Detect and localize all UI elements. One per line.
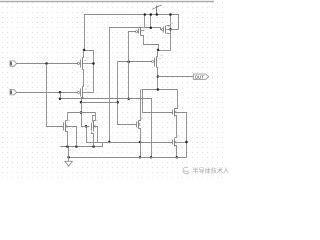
- transistor B nmos mirror diode: [92, 120, 99, 132]
- node out: [157, 75, 160, 78]
- wire M1 bulk: [83, 63, 94, 65]
- wire bias bus y=27.7 with left riser: [110, 28, 151, 143]
- wire B1 drop to C gate: [118, 62, 137, 125]
- wire INN drop: [60, 93, 62, 99]
- transistor M5 pmos mirror right: [162, 23, 173, 33]
- wire A drain lead: [66, 113, 68, 121]
- wire M6 gate bus: [118, 61, 153, 63]
- wire INP drop to A gate: [47, 64, 64, 127]
- wire Mn2 source: [175, 146, 177, 158]
- node B1 on y=102.3: [116, 101, 119, 104]
- node M1 source: [83, 49, 86, 52]
- node M1 bulk: [92, 62, 95, 65]
- wire W1 bias horizontal with tail: [61, 99, 152, 158]
- node Mn2 bulk on riser: [185, 141, 188, 144]
- wire M1 bulk jog riser: [85, 51, 94, 93]
- wire M5 gate from rail: [151, 15, 162, 30]
- wire M2 drain jog: [83, 97, 84, 99]
- wire C source riser: [139, 129, 141, 158]
- port INP: [10, 61, 17, 66]
- node A source: [66, 145, 69, 148]
- port INN: [10, 90, 17, 95]
- wire x=81 drop to B gate: [82, 103, 90, 127]
- node C source on mirror rail: [139, 141, 142, 144]
- vdd supply symbol: [156, 6, 158, 15]
- node C source on ground: [139, 156, 142, 159]
- node B2 on W1: [127, 97, 130, 100]
- node W1 left: [59, 97, 62, 100]
- transistor C nmos mirror out: [137, 118, 144, 129]
- transistor Mn2 nmos output: [173, 136, 180, 147]
- wire M1 source lead: [83, 51, 84, 58]
- wire ground stub: [68, 147, 70, 162]
- wire Mn1 drain riser: [175, 90, 178, 109]
- transistor M1 pmos input cascode: [78, 57, 89, 69]
- wire y=102.3: [82, 102, 118, 104]
- wire M7 bulk: [141, 30, 145, 32]
- wire Mn2 bulk: [176, 142, 187, 144]
- wire B bulk: [95, 127, 98, 143]
- wire M6 source node y=50: [159, 50, 171, 52]
- wire B2 drop from M7 gate: [129, 32, 137, 99]
- wire ground rail: [69, 157, 187, 159]
- wire M2 bulk: [83, 92, 94, 94]
- wire M5 bulk to rail end: [167, 29, 179, 31]
- wire A bulk: [67, 127, 77, 147]
- node M6 gate B2 junction: [127, 61, 130, 64]
- wire out level y=89.5: [142, 89, 178, 91]
- wire M7 drain to M6 source node: [141, 36, 159, 51]
- wire y=112.5 A drain to B drain: [68, 112, 96, 114]
- node M5 gate riser on rail: [150, 13, 153, 16]
- transistor A nmos mirror left: [64, 120, 70, 132]
- wire M1 drain to M2 source: [83, 70, 84, 87]
- transistor M6 pmos second stage: [152, 55, 163, 67]
- node A bulk: [75, 145, 78, 148]
- node M6 source: [157, 49, 160, 52]
- wire mirror rail / Mn2 gate bus y=142: [87, 127, 173, 143]
- svg-text:OUT: OUT: [195, 74, 204, 79]
- wire Mn1 source to Mn2 drain: [175, 116, 177, 138]
- wire M5 drain jog: [167, 33, 171, 35]
- wire Mn1 gate from out level: [143, 90, 173, 113]
- node ground stub: [67, 156, 70, 159]
- wire B drain lead: [94, 113, 96, 121]
- node B gate tap: [85, 125, 88, 128]
- wire M6 drain to out node: [157, 68, 158, 90]
- wire B source lead: [92, 132, 94, 147]
- transistor Mn1 nmos output cascode: [173, 106, 180, 117]
- node INP net: [45, 62, 48, 65]
- transistor M2 pmos input: [78, 86, 89, 99]
- node W1 tail on ground: [150, 156, 153, 159]
- node bias riser on mirror rail: [108, 141, 111, 144]
- wire C drain riser: [139, 90, 141, 121]
- top border: [0, 1, 214, 2]
- port OUT: [193, 74, 208, 79]
- ground: [65, 161, 72, 166]
- transistor M7 pmos mirror left: [136, 25, 147, 36]
- wire M5 source jog: [167, 25, 171, 27]
- node M7 source on rail: [144, 13, 147, 16]
- svg-text:半导体技术人: 半导体技术人: [193, 167, 230, 175]
- node bias bus junction: [150, 26, 153, 29]
- wire B diode jog: [93, 116, 96, 122]
- node rail-stem junction: [156, 13, 159, 16]
- node M5 riser on rail: [169, 13, 172, 16]
- wire A source lead: [66, 132, 68, 147]
- node x81 on y112.5: [80, 111, 83, 114]
- node out riser junction: [157, 88, 160, 91]
- wire Mn1 bulk: [176, 113, 187, 158]
- wire vdd rail: [85, 15, 179, 51]
- wire out to port: [158, 76, 194, 78]
- wire INP to M1 gate: [17, 63, 78, 65]
- wire M5 riser: [170, 15, 172, 51]
- node M5 bulk junction: [169, 28, 172, 31]
- node M2 drain: [80, 101, 83, 104]
- watermark logo: [183, 167, 189, 174]
- wire source rail Q: [61, 143, 103, 147]
- node Mn2 source on ground: [176, 156, 179, 159]
- wire M6 source lead: [157, 51, 158, 57]
- wire M7 source: [141, 15, 145, 28]
- wire INN to M2 gate: [17, 92, 78, 94]
- node INN net: [59, 91, 62, 94]
- node B source: [92, 145, 95, 148]
